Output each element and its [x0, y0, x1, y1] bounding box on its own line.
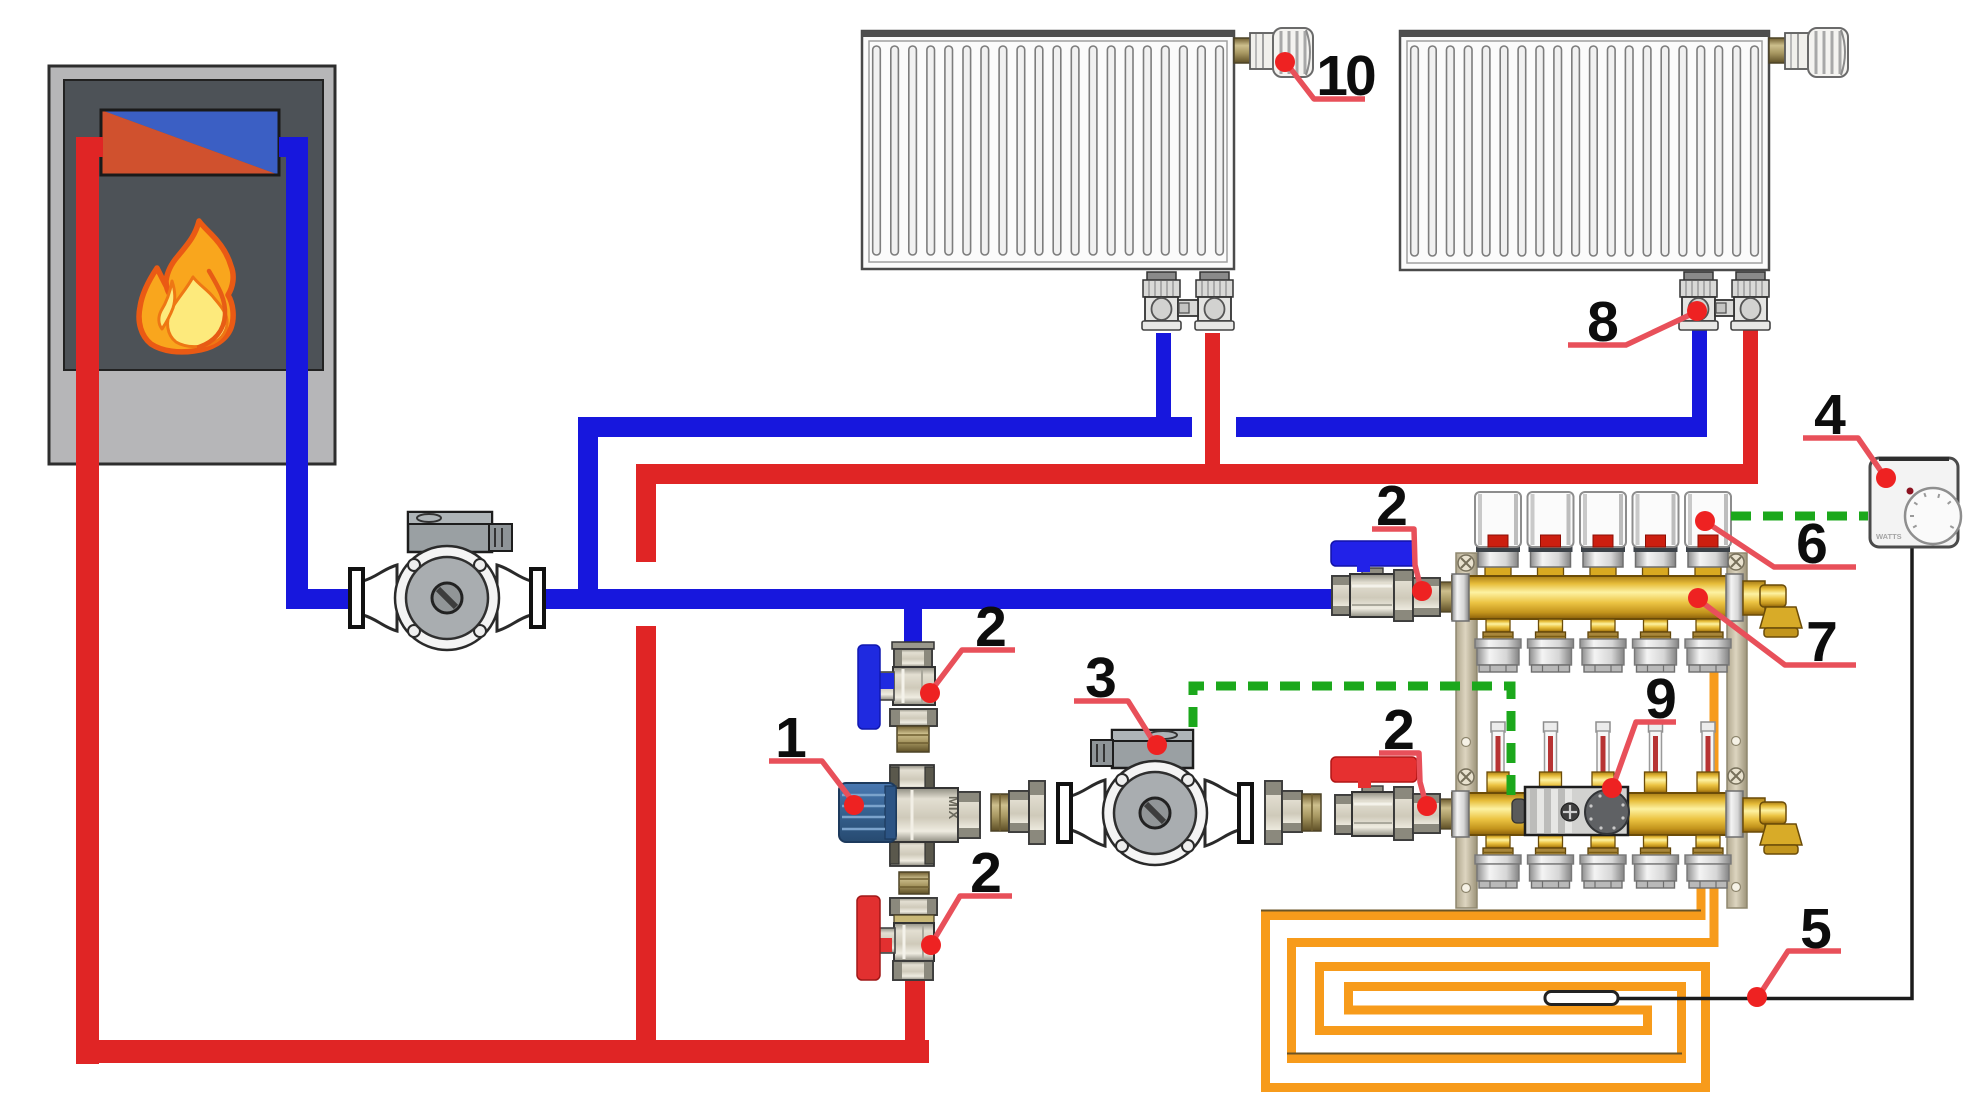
label 3 leader line [1074, 646, 1167, 755]
supply manifold flow meters [1487, 722, 1719, 793]
return manifold bar, item 7 [1452, 563, 1743, 621]
red pipe: radiator 2 branch [1743, 328, 1758, 466]
circulation pump (boiler circuit) [350, 512, 544, 650]
red pipe: boiler supply left vertical [76, 137, 99, 1064]
svg-text:WATTS: WATTS [1876, 532, 1902, 541]
svg-text:3: 3 [1085, 646, 1117, 710]
control link: pump 3 to mixing unit (dashed) [1193, 686, 1511, 795]
red pipe: riser to floor-circuit valve [905, 980, 925, 1048]
svg-text:2: 2 [970, 841, 1002, 905]
blue pipe: branch down to zone valve [904, 599, 922, 644]
label 9 leader line [1602, 667, 1677, 798]
red pipe: bottom horizontal run [76, 1040, 929, 1063]
manifold mounting bracket right [1727, 553, 1747, 908]
radiator 1 connection valve (H-piece bottom valve) [1142, 272, 1234, 330]
red pipe: main horizontal supply [636, 464, 1758, 484]
blue pipe: main horizontal return [286, 589, 1331, 609]
ball valve item 2 (red handle, at supply manifold) [1331, 757, 1452, 840]
manifold actuator caps, item 6 [1475, 492, 1731, 567]
red pipe: mid vertical lower segment [636, 626, 656, 1047]
svg-text:8: 8 [1587, 290, 1619, 354]
supply manifold outlets (chrome couplings) [1475, 835, 1731, 888]
label 5 leader line [1747, 897, 1841, 1007]
svg-text:2: 2 [975, 595, 1007, 659]
control link: thermostat to manifold actuator (dashed) [1731, 512, 1868, 521]
label 6 leader line [1695, 511, 1856, 576]
label 2 leader line [1379, 698, 1437, 816]
blue pipe: boiler return vertical [286, 137, 308, 609]
supply manifold end cap with drain valve [1743, 798, 1802, 854]
return manifold outlets (chrome couplings) [1475, 619, 1731, 672]
manifold mounting bracket left [1456, 553, 1477, 908]
blue pipe: top return line segment 1 [578, 417, 1192, 437]
label 8 leader line [1568, 290, 1707, 354]
svg-text:4: 4 [1814, 383, 1846, 447]
svg-text:1: 1 [775, 706, 807, 770]
blue pipe: stub into heat exchanger [279, 137, 289, 157]
orange pipe: underfloor heating loop (serpentine) [1261, 669, 1714, 1088]
radiator 2 [1400, 31, 1769, 270]
svg-text:7: 7 [1806, 610, 1838, 674]
return manifold end cap with vent valve [1743, 581, 1802, 637]
red pipe: radiator 1 branch [1205, 333, 1220, 466]
label 2 leader line [921, 841, 1012, 955]
radiator 2 valve head (thermostatic head) [1769, 28, 1848, 77]
svg-text:2: 2 [1376, 474, 1408, 538]
blue pipe: left riser of top return line [578, 417, 598, 609]
wire: thermostat cable [1618, 547, 1912, 999]
ball valve item 2 (red handle, to floor return) [857, 872, 937, 980]
svg-text:5: 5 [1800, 897, 1832, 961]
label 4 leader line [1803, 383, 1896, 488]
boiler combustion chamber [64, 80, 323, 370]
floor temperature sensor [1545, 992, 1618, 1005]
svg-text:6: 6 [1796, 512, 1828, 576]
label 1 leader line [769, 706, 864, 815]
thermostatic mixing valve, item 1 [839, 765, 980, 866]
blue pipe: top return line segment 2 [1236, 417, 1707, 437]
radiator 1 [862, 31, 1234, 269]
label 2 leader line [1372, 474, 1432, 601]
boiler heat exchanger (red/blue) [101, 110, 279, 175]
pipe union fittings (pump 3 to ball valve) [1265, 781, 1321, 844]
radiator 2 connection valve, item 8 (H-piece bottom valve) [1679, 272, 1770, 330]
svg-text:2: 2 [1383, 698, 1415, 762]
flame icon [139, 221, 233, 352]
svg-text:9: 9 [1645, 667, 1677, 731]
radiator 1 valve head, item 10 (thermostatic head) [1234, 28, 1313, 77]
pipe union fittings (mixing valve to pump 3) [991, 781, 1045, 844]
label 2 leader line [920, 595, 1015, 703]
blue pipe: radiator 1 branch [1156, 333, 1171, 437]
ball valve item 2 (blue handle, at return manifold) [1331, 541, 1452, 621]
room thermostat, item 4 [1870, 458, 1961, 547]
boiler outer casing [49, 66, 335, 464]
label 10 leader line [1275, 44, 1375, 108]
ball valve item 2 (blue handle, before mixing valve) [858, 642, 937, 752]
supply manifold bar [1452, 791, 1743, 837]
circulation pump, item 3 (floor circuit) [1058, 730, 1252, 865]
blue pipe: radiator 2 branch [1692, 330, 1707, 437]
red pipe: stub into heat exchanger [96, 137, 103, 157]
manifold mixing unit, item 9 [1512, 787, 1629, 835]
label 7 leader line [1688, 588, 1856, 674]
svg-text:10: 10 [1316, 44, 1375, 108]
red pipe: mid vertical upper segment [636, 464, 656, 562]
